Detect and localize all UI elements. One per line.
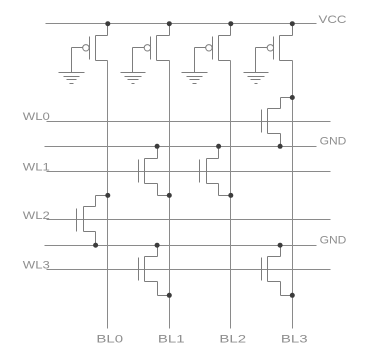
- junction M20 (WL2/BL0) source to GND row: [93, 243, 98, 248]
- wire word line WL0: [47, 121, 331, 123]
- svg-text:BL2: BL2: [219, 334, 246, 346]
- ground symbol for MP3: [244, 72, 269, 74]
- wire VCC rail: [46, 23, 317, 25]
- junction M11 (WL1/BL1) source to GND row: [155, 144, 160, 149]
- junction M33 (WL3/BL3) source to GND row: [278, 243, 283, 248]
- transistor NMOS M33 (WL3/BL3): [267, 257, 269, 282]
- svg-text:BL0: BL0: [96, 334, 123, 346]
- junction M11 (WL1/BL1) drain to bit line: [167, 193, 172, 198]
- svg-text:WL3: WL3: [23, 259, 50, 271]
- junction MP3 source to VCC: [290, 21, 295, 26]
- transistor NMOS M11 (WL1/BL1): [144, 159, 146, 184]
- transistor NMOS M31 (WL3/BL1): [144, 257, 146, 282]
- transistor pull-up PMOS MP2: [230, 24, 232, 36]
- transistor pull-up PMOS MP3: [292, 24, 294, 36]
- wire gate of MP2 to ground: [195, 47, 206, 49]
- svg-text:VCC: VCC: [319, 14, 347, 26]
- ground symbol for MP1: [121, 72, 146, 74]
- svg-text:WL1: WL1: [23, 161, 50, 173]
- svg-text:GND: GND: [320, 136, 347, 148]
- junction M31 (WL3/BL1) source to GND row: [155, 243, 160, 248]
- wire GND row 1: [45, 146, 317, 148]
- wire bit line BL0: [107, 61, 109, 329]
- wire bit line BL1: [169, 61, 171, 329]
- svg-text:GND: GND: [320, 234, 347, 246]
- svg-text:BL3: BL3: [281, 334, 308, 346]
- junction M03 (WL0/BL3) drain to bit line: [290, 95, 295, 100]
- junction M20 (WL2/BL0) drain to bit line: [105, 193, 110, 198]
- transistor pull-up PMOS MP0: [107, 24, 109, 36]
- wire bit line BL2: [230, 61, 232, 329]
- wire bit line BL3: [292, 61, 294, 329]
- transistor pull-up PMOS MP1: [169, 24, 171, 36]
- wire gate of MP3 to ground: [256, 47, 268, 49]
- transistor NMOS M03 (WL0/BL3): [267, 109, 269, 134]
- wire word line WL2: [47, 219, 331, 221]
- transistor NMOS M20 (WL2/BL0): [83, 207, 85, 232]
- wire word line WL3: [47, 269, 331, 271]
- svg-text:BL1: BL1: [158, 334, 185, 346]
- svg-text:WL0: WL0: [23, 111, 50, 123]
- transistor NMOS M12 (WL1/BL2): [206, 159, 208, 184]
- junction M12 (WL1/BL2) drain to bit line: [228, 193, 233, 198]
- junction MP0 source to VCC: [105, 21, 110, 26]
- junction MP1 source to VCC: [167, 21, 172, 26]
- wire GND row 2: [45, 245, 317, 247]
- junction M12 (WL1/BL2) source to GND row: [216, 144, 221, 149]
- wire gate of MP0 to ground: [72, 47, 83, 49]
- svg-text:WL2: WL2: [23, 210, 50, 222]
- junction M31 (WL3/BL1) drain to bit line: [167, 293, 172, 298]
- wire word line WL1: [47, 171, 331, 173]
- ground symbol for MP2: [182, 72, 208, 74]
- junction M33 (WL3/BL3) drain to bit line: [290, 293, 295, 298]
- junction M03 (WL0/BL3) source to GND row: [278, 144, 283, 149]
- ground symbol for MP0: [59, 72, 85, 74]
- junction MP2 source to VCC: [228, 21, 233, 26]
- wire gate of MP1 to ground: [133, 47, 145, 49]
